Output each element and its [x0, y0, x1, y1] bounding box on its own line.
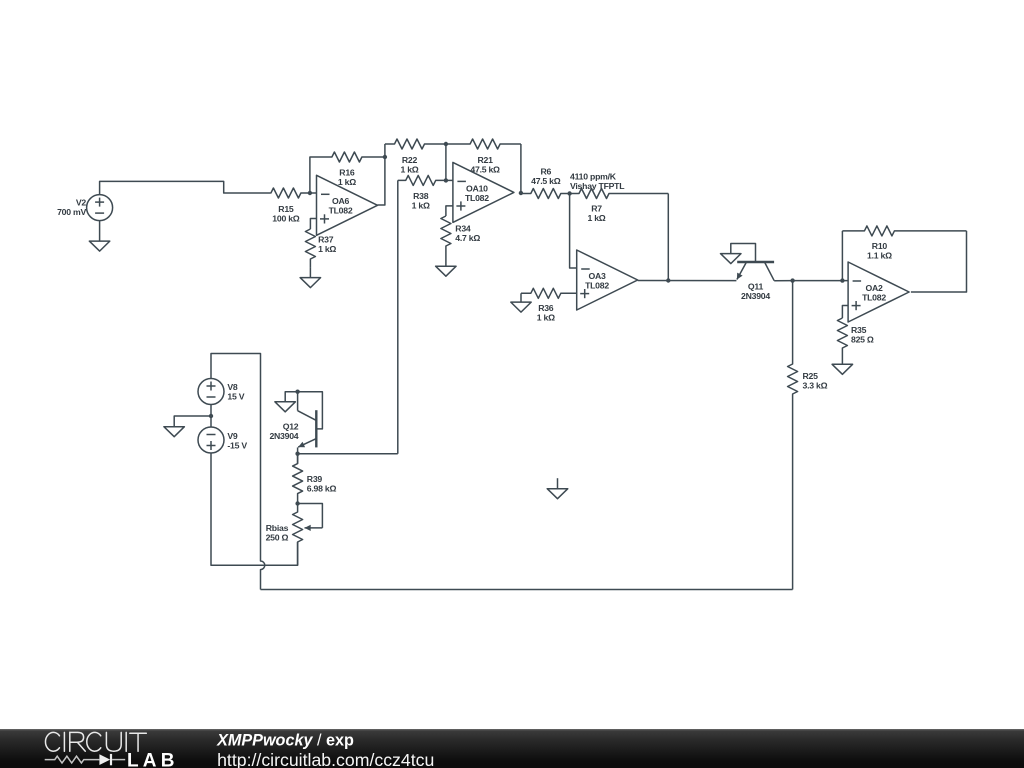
node Q11 collector — [790, 278, 794, 282]
wire R7 right riser — [667, 194, 669, 281]
ground under R37 — [300, 268, 321, 288]
wire R38 left riser — [397, 180, 399, 453]
svg-text:R371 kΩ: R371 kΩ — [318, 235, 336, 255]
svg-text:4110 ppm/KVishay TFPTL: 4110 ppm/KVishay TFPTL — [570, 171, 625, 191]
wire R10 left riser — [841, 231, 843, 281]
wire Q12 base hook — [298, 392, 323, 429]
svg-text:R221 kΩ: R221 kΩ — [400, 155, 418, 175]
wire R10 right riser — [911, 231, 967, 292]
node OA6 minus input — [308, 191, 312, 195]
node OA10 minus input — [444, 178, 448, 182]
resistor R21 — [446, 139, 521, 149]
wire Q11 collector to node — [774, 280, 792, 282]
resistor R15 — [271, 188, 310, 198]
wire R38 to OA10 minus — [446, 179, 453, 181]
svg-text:R647.5 kΩ: R647.5 kΩ — [531, 167, 561, 187]
ground under R34 — [436, 266, 457, 276]
ground at Q12 — [275, 402, 296, 412]
svg-text:R101.1 kΩ: R101.1 kΩ — [867, 241, 892, 261]
ground under R35 — [832, 364, 853, 374]
wire R21 to OA10 output — [520, 144, 522, 193]
node R16 output riser — [383, 155, 387, 159]
wire Q12 emitter down — [297, 447, 299, 463]
resistor R37 — [305, 229, 315, 268]
wire V9 to Rbias bottom — [211, 453, 298, 565]
svg-text:R161 kΩ: R161 kΩ — [338, 167, 356, 187]
ground at V8-V9 — [164, 427, 185, 437]
wire OA6 plus hook — [310, 219, 316, 230]
resistor R35 — [837, 318, 847, 364]
resistor R10 — [842, 226, 966, 236]
wire V8-V9 junction — [210, 405, 212, 428]
svg-text:XMPPwocky / exp: XMPPwocky / exp — [216, 732, 354, 750]
svg-text:R253.3 kΩ: R253.3 kΩ — [803, 371, 828, 391]
wire bottom rail — [261, 589, 793, 591]
resistor R39 — [293, 454, 303, 504]
resistor R34 — [441, 216, 451, 266]
voltage source V9 — [198, 427, 224, 453]
node OA3 output — [666, 278, 670, 282]
wire R22 node to R38 node — [445, 144, 447, 180]
transistor Q11 — [737, 262, 774, 281]
resistor R22 — [385, 139, 446, 149]
svg-text:R35825 Ω: R35825 Ω — [851, 325, 874, 345]
node OA2 minus input — [840, 278, 844, 282]
svg-text:R361 kΩ: R361 kΩ — [537, 303, 555, 323]
Rbias wiper arrow — [305, 525, 323, 531]
node V8-V9 — [209, 414, 213, 418]
svg-text:R15100 kΩ: R15100 kΩ — [272, 204, 299, 224]
wire junction to ground — [174, 416, 211, 427]
wire Q11 base to ground — [731, 244, 756, 263]
resistor R25 — [788, 281, 798, 590]
op-amp OA3 — [577, 250, 638, 310]
svg-text:R2147.5 kΩ: R2147.5 kΩ — [470, 155, 500, 175]
ground at Q11 base — [721, 254, 742, 264]
svg-text:OA6TL082: OA6TL082 — [329, 196, 353, 216]
ground under V2 — [89, 221, 110, 252]
wire OA3 output — [638, 280, 737, 282]
svg-text:OA2TL082: OA2TL082 — [862, 283, 886, 303]
op-amp OA6 — [317, 175, 378, 235]
svg-text:OA10TL082: OA10TL082 — [465, 183, 489, 203]
voltage source V2 — [87, 195, 113, 221]
svg-text:V9-15 V: V9-15 V — [227, 431, 247, 451]
svg-text:V815 V: V815 V — [227, 382, 244, 402]
wire Rbias wiper loop — [298, 504, 323, 528]
wire Q12 emitter to R38 riser — [298, 453, 398, 455]
wire V8 top rail with hop — [211, 354, 265, 590]
svg-text:LAB: LAB — [127, 750, 179, 768]
svg-text:OA3TL082: OA3TL082 — [585, 271, 609, 291]
svg-text:V2700 mV: V2700 mV — [57, 198, 86, 218]
resistor R36 — [521, 288, 577, 298]
resistor R38 — [398, 175, 446, 185]
node OA10 output — [519, 191, 523, 195]
wire Q12 collector up — [297, 392, 299, 411]
svg-text:http://circuitlab.com/ccz4tcu: http://circuitlab.com/ccz4tcu — [217, 750, 434, 768]
wire to OA3 minus — [570, 194, 577, 269]
node R39-Rbias — [295, 501, 299, 505]
wire OA6 output riser — [378, 144, 385, 205]
wire OA10 plus hook — [446, 206, 453, 216]
ground left of R36 — [511, 293, 531, 312]
svg-text:R344.7 kΩ: R344.7 kΩ — [455, 224, 480, 244]
CircuitLab logo wordmark CIRCUIT — [45, 732, 146, 751]
node R6-R7-OA3 — [567, 191, 571, 195]
node Q12 emitter — [295, 452, 299, 456]
svg-text:Q122N3904: Q122N3904 — [269, 422, 298, 442]
op-amp OA10 — [453, 162, 514, 222]
CircuitLab logo resistor-diode line — [45, 756, 100, 763]
transistor Q12 — [298, 410, 317, 447]
resistor R7 — [570, 189, 669, 199]
bottom black bar — [0, 729, 1024, 768]
resistor Rbias — [293, 504, 303, 566]
floating ground — [547, 478, 568, 499]
wire V2 top to R15 — [100, 181, 271, 194]
svg-text:R71 kΩ: R71 kΩ — [587, 203, 605, 223]
node R22-R21-R38 — [444, 142, 448, 146]
svg-text:R396.98 kΩ: R396.98 kΩ — [307, 474, 337, 494]
wire node to OA2 minus — [793, 280, 849, 282]
wire R15 to OA6 minus — [310, 192, 317, 194]
wire OA2 plus hook — [842, 306, 848, 319]
svg-text:Rbias250 Ω: Rbias250 Ω — [266, 523, 289, 543]
resistor R6 — [521, 189, 570, 199]
node Q12 collector-base — [295, 390, 299, 394]
op-amp OA2 — [848, 262, 909, 322]
resistor R16 — [316, 152, 385, 162]
wire OA6 minus to R16 — [310, 157, 316, 193]
voltage source V8 — [198, 379, 224, 405]
svg-text:Q112N3904: Q112N3904 — [741, 281, 770, 301]
wire Q12 node to ground — [285, 392, 297, 402]
svg-text:R381 kΩ: R381 kΩ — [412, 191, 430, 211]
